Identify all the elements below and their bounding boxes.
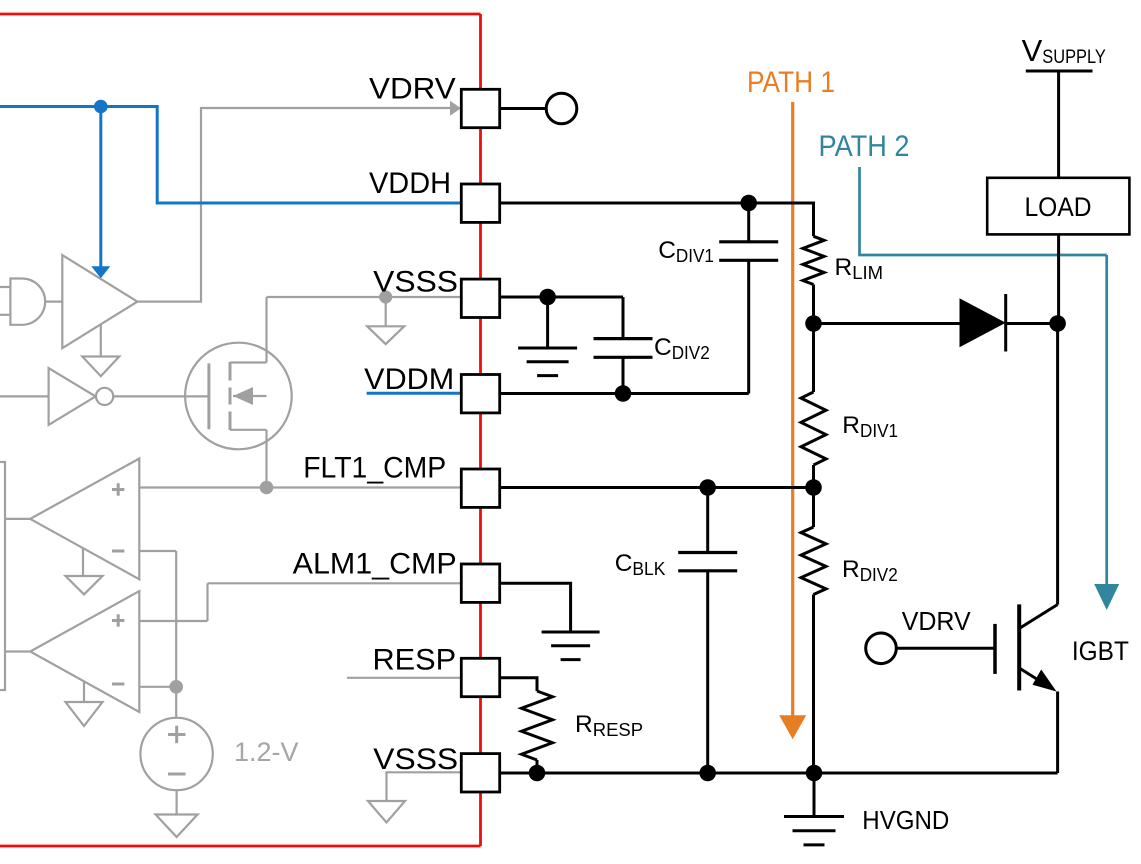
- svg-text:LOAD: LOAD: [1025, 192, 1092, 222]
- svg-text:VSSS: VSSS: [373, 266, 458, 299]
- svg-text:RDIV1: RDIV1: [842, 412, 898, 441]
- svg-text:PATH 1: PATH 1: [747, 66, 835, 99]
- svg-text:IGBT: IGBT: [1072, 636, 1129, 666]
- svg-text:RESP: RESP: [373, 643, 457, 676]
- svg-text:RDIV2: RDIV2: [842, 556, 898, 585]
- svg-text:HVGND: HVGND: [862, 807, 949, 835]
- svg-text:VDRV: VDRV: [902, 606, 972, 636]
- svg-text:VSUPPLY: VSUPPLY: [1022, 33, 1107, 68]
- svg-text:CDIV2: CDIV2: [654, 334, 710, 363]
- svg-text:PATH 2: PATH 2: [819, 130, 910, 163]
- svg-text:FLT1_CMP: FLT1_CMP: [303, 451, 446, 484]
- svg-text:VDRV: VDRV: [369, 73, 456, 106]
- svg-text:VSSS: VSSS: [373, 743, 458, 776]
- svg-text:1.2-V: 1.2-V: [234, 737, 299, 767]
- svg-text:ALM1_CMP: ALM1_CMP: [293, 548, 457, 581]
- svg-text:RRESP: RRESP: [575, 711, 643, 740]
- svg-text:VDDH: VDDH: [369, 167, 451, 200]
- svg-text:CDIV1: CDIV1: [658, 237, 714, 266]
- svg-text:VDDM: VDDM: [364, 363, 454, 396]
- svg-text:CBLK: CBLK: [615, 550, 666, 579]
- svg-text:RLIM: RLIM: [835, 254, 884, 283]
